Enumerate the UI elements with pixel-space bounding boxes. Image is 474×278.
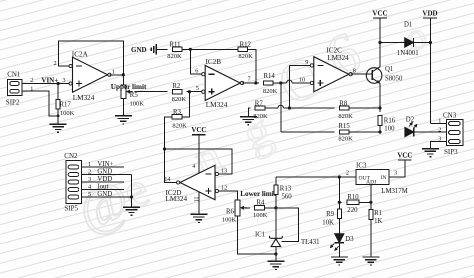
ground xyxy=(115,116,132,124)
connector CN2 xyxy=(64,152,81,212)
svg-text:560: 560 xyxy=(282,194,293,201)
connector CN3 xyxy=(438,112,463,156)
resistor R14 xyxy=(263,73,278,95)
led D2 xyxy=(405,117,417,137)
transistor Q1 xyxy=(366,66,403,83)
svg-text:820K: 820K xyxy=(263,88,278,95)
svg-text:IC2B: IC2B xyxy=(206,58,222,66)
svg-text:4: 4 xyxy=(192,164,195,170)
wire xyxy=(414,131,447,133)
pin number 8 xyxy=(353,67,356,74)
wire xyxy=(242,81,259,84)
net label Upper limit xyxy=(111,83,147,91)
wire xyxy=(22,91,59,117)
svg-text:D3: D3 xyxy=(345,236,354,243)
svg-text:1N4001: 1N4001 xyxy=(397,50,419,57)
svg-text:R7: R7 xyxy=(255,101,264,108)
svg-text:820K: 820K xyxy=(253,113,268,120)
svg-text:IC1: IC1 xyxy=(255,232,265,239)
svg-text:GND: GND xyxy=(131,46,147,54)
connector CN1 xyxy=(6,71,33,107)
svg-text:2: 2 xyxy=(346,169,349,176)
resistor R8 xyxy=(338,101,353,121)
svg-text:LM317M: LM317M xyxy=(381,188,407,195)
svg-text:R13: R13 xyxy=(280,186,292,193)
svg-text:LM324: LM324 xyxy=(327,54,349,62)
svg-text:R2: R2 xyxy=(172,83,181,90)
wire xyxy=(248,108,250,117)
resistor R3 xyxy=(172,109,187,130)
svg-text:R14: R14 xyxy=(264,73,276,80)
wire xyxy=(430,123,446,125)
ground xyxy=(190,214,207,222)
svg-text:D2: D2 xyxy=(406,117,415,124)
ground xyxy=(422,149,439,157)
op-amp IC2D xyxy=(164,165,227,203)
net label VIN+ xyxy=(41,76,58,84)
ground xyxy=(362,257,379,265)
wire xyxy=(182,92,190,117)
svg-text:10: 10 xyxy=(299,76,305,83)
svg-text:820K: 820K xyxy=(167,53,182,60)
wire xyxy=(378,41,381,67)
resistor R16 xyxy=(378,116,396,133)
svg-text:SIP3: SIP3 xyxy=(444,148,458,156)
resistor R17 xyxy=(56,84,75,125)
wire xyxy=(222,191,238,200)
resistor R7 xyxy=(253,101,268,121)
resistor R10 xyxy=(347,194,359,214)
svg-text:LM324: LM324 xyxy=(206,101,228,109)
wire xyxy=(163,147,232,174)
wire xyxy=(265,105,335,108)
wire xyxy=(414,41,432,44)
wire xyxy=(273,80,307,84)
svg-text:820K: 820K xyxy=(338,136,353,143)
svg-text:3: 3 xyxy=(394,169,397,176)
svg-text:IN: IN xyxy=(381,175,387,181)
wire xyxy=(288,65,291,109)
wire xyxy=(131,175,133,208)
wire xyxy=(82,189,124,191)
svg-text:VIN+: VIN+ xyxy=(41,76,58,84)
wire xyxy=(22,82,66,85)
power port GND xyxy=(131,44,168,55)
regulator IC3 xyxy=(356,162,408,195)
wire xyxy=(379,83,381,112)
wire xyxy=(430,142,446,149)
pin number 10 xyxy=(299,76,305,83)
ground xyxy=(123,207,140,215)
wire xyxy=(190,49,199,74)
resistor R4 xyxy=(253,199,268,219)
svg-text:R15: R15 xyxy=(338,123,350,130)
svg-text:2: 2 xyxy=(438,126,441,133)
diode D1 xyxy=(380,22,419,58)
svg-text:R16: R16 xyxy=(384,118,396,125)
svg-text:IC3: IC3 xyxy=(356,162,367,170)
svg-text:VCC: VCC xyxy=(397,151,412,159)
svg-text:Upper limit: Upper limit xyxy=(111,83,147,91)
svg-text:R11: R11 xyxy=(170,42,181,49)
op-amp IC2A xyxy=(54,50,115,102)
pin number 9 xyxy=(305,59,308,66)
svg-text:100K: 100K xyxy=(222,216,237,223)
wire xyxy=(82,195,133,198)
wire xyxy=(247,49,255,83)
svg-text:3: 3 xyxy=(63,77,66,84)
ground xyxy=(331,257,348,265)
svg-text:LM324: LM324 xyxy=(166,195,188,203)
svg-text:CN3: CN3 xyxy=(443,112,457,120)
svg-text:VDD: VDD xyxy=(422,9,437,17)
wire xyxy=(338,243,340,257)
ground xyxy=(240,117,257,125)
wire xyxy=(59,41,124,75)
wire pin 4 xyxy=(192,145,199,174)
wire xyxy=(245,207,250,209)
svg-text:11: 11 xyxy=(192,197,198,203)
svg-text:R6: R6 xyxy=(226,209,235,216)
ground xyxy=(50,124,67,132)
svg-text:CN2: CN2 xyxy=(64,152,78,160)
power port VCC xyxy=(191,126,206,144)
svg-text:VCC: VCC xyxy=(191,126,206,134)
svg-text:220: 220 xyxy=(347,207,358,214)
wire xyxy=(264,206,277,209)
pin number 2 xyxy=(346,169,349,176)
wire xyxy=(359,201,373,204)
op-amp IC2B xyxy=(196,58,251,109)
svg-text:CN1: CN1 xyxy=(7,71,21,79)
potentiometer R5 xyxy=(121,75,144,108)
tl431 IC1 xyxy=(255,208,320,254)
ground xyxy=(267,261,284,269)
wire xyxy=(182,48,238,51)
wire xyxy=(339,201,341,203)
pin labels CN2 xyxy=(88,161,113,198)
svg-text:SIP5: SIP5 xyxy=(64,204,78,212)
wire xyxy=(349,130,382,133)
svg-text:100K: 100K xyxy=(253,212,268,219)
wire xyxy=(370,185,372,203)
svg-text:1K: 1K xyxy=(374,218,382,225)
wire xyxy=(82,174,132,176)
wire xyxy=(280,83,282,132)
svg-text:R5: R5 xyxy=(130,92,139,99)
wire xyxy=(109,73,125,76)
svg-text:8: 8 xyxy=(353,67,356,74)
svg-text:7: 7 xyxy=(248,76,251,83)
svg-text:D1: D1 xyxy=(404,22,412,29)
svg-text:VCC: VCC xyxy=(372,9,387,17)
svg-text:820K: 820K xyxy=(238,53,253,60)
svg-text:100K: 100K xyxy=(60,110,75,117)
resistor R15 xyxy=(338,123,353,142)
led D3 xyxy=(330,234,354,251)
wire xyxy=(237,216,277,256)
resistor R1 xyxy=(369,202,383,257)
resistor R9 xyxy=(322,202,341,234)
svg-text:100: 100 xyxy=(384,125,395,132)
wire xyxy=(187,90,199,93)
power port VCC xyxy=(372,9,387,42)
wire xyxy=(165,149,177,183)
svg-text:LM324: LM324 xyxy=(73,94,95,102)
svg-text:2: 2 xyxy=(54,60,57,67)
svg-text:R1: R1 xyxy=(374,210,382,217)
wire xyxy=(275,254,277,261)
wire xyxy=(379,125,381,132)
wire xyxy=(122,98,124,116)
svg-text:10K: 10K xyxy=(322,220,334,227)
svg-text:6: 6 xyxy=(195,68,198,75)
wire xyxy=(351,73,372,75)
wire xyxy=(82,181,124,183)
svg-text:14: 14 xyxy=(164,176,170,183)
svg-text:S8050: S8050 xyxy=(385,76,403,83)
op-amp IC2C xyxy=(307,47,352,92)
power port VDD xyxy=(422,9,437,123)
svg-text:R9: R9 xyxy=(326,211,335,218)
wire xyxy=(82,166,124,168)
svg-text:100K: 100K xyxy=(130,101,145,108)
pin number 3 xyxy=(394,169,397,176)
resistor R2 xyxy=(172,83,187,103)
wire xyxy=(349,106,382,109)
svg-text:2: 2 xyxy=(30,77,33,84)
wire xyxy=(338,177,341,204)
resistor R12 xyxy=(238,42,253,61)
wire xyxy=(289,64,307,66)
wire pin 11 xyxy=(192,192,199,215)
svg-text:820K: 820K xyxy=(172,96,187,103)
svg-text:R10: R10 xyxy=(347,194,359,201)
pin number 3 xyxy=(63,77,66,84)
svg-text:SIP2: SIP2 xyxy=(6,99,20,107)
svg-text:Lower limit: Lower limit xyxy=(240,190,277,198)
wire xyxy=(276,175,356,178)
wire xyxy=(135,91,168,93)
svg-text:820K: 820K xyxy=(338,113,353,120)
svg-text:TL431: TL431 xyxy=(301,239,320,246)
net label Lower limit xyxy=(240,190,277,198)
pin number 6 xyxy=(195,68,198,75)
svg-text:820K: 820K xyxy=(172,123,187,130)
svg-text:Q1: Q1 xyxy=(385,66,393,73)
resistor R13 xyxy=(274,177,292,208)
svg-text:5: 5 xyxy=(196,85,199,92)
wire xyxy=(276,208,299,242)
wire xyxy=(281,131,335,133)
svg-text:R17: R17 xyxy=(60,102,72,109)
svg-text:IC2A: IC2A xyxy=(72,50,89,58)
svg-text:ADJ: ADJ xyxy=(366,180,377,186)
svg-text:R4: R4 xyxy=(257,199,266,206)
svg-text:R3: R3 xyxy=(173,109,182,116)
potentiometer R6 xyxy=(222,200,247,224)
wire xyxy=(165,117,173,149)
svg-text:R12: R12 xyxy=(240,42,252,49)
power port VCC xyxy=(389,151,413,177)
resistor R11 xyxy=(167,42,182,61)
svg-text:R8: R8 xyxy=(339,101,348,108)
